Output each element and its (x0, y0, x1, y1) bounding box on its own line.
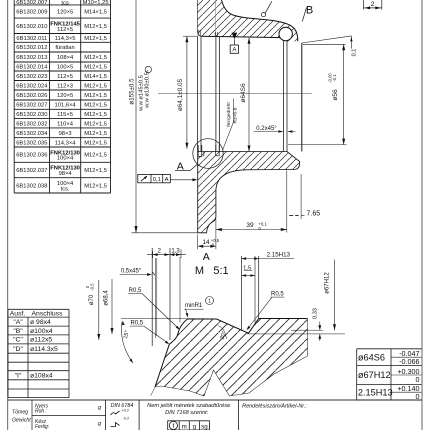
dim ø67H12 (334, 260, 336, 331)
svg-text:Fertig:: Fertig: (35, 424, 50, 430)
svg-text:120×5: 120×5 (57, 10, 73, 16)
dim ø155 line (135, 0, 137, 233)
svg-text:M12×1,5: M12×1,5 (84, 24, 107, 30)
svg-text:A: A (177, 160, 184, 172)
svg-text:-0.066: -0.066 (399, 357, 419, 366)
detail circle A (193, 139, 223, 169)
svg-text:6B1302.007: 6B1302.007 (16, 0, 47, 6)
svg-text:112×5: 112×5 (57, 74, 73, 80)
svg-text:0,33: 0,33 (313, 308, 319, 319)
svg-text:Roh :: Roh : (35, 409, 48, 415)
svg-text:-0,1: -0,1 (332, 74, 337, 82)
svg-text:M12×1,5: M12×1,5 (84, 131, 107, 137)
svg-text:Anschluss: Anschluss (32, 311, 64, 318)
svg-text:ø70: ø70 (89, 294, 95, 305)
tube end seats at body (198, 145, 204, 156)
svg-text:6B1302.023: 6B1302.023 (16, 74, 47, 80)
svg-text:M12×1,5: M12×1,5 (84, 153, 107, 159)
tolerance table (357, 349, 422, 401)
svg-text:ø68,4: ø68,4 (103, 290, 109, 306)
svg-text:tcs: tcs (61, 0, 69, 6)
svg-text:f: f (173, 423, 175, 430)
svg-text:6B1302.013: 6B1302.013 (16, 55, 47, 61)
svg-text:ø67H12: ø67H12 (358, 370, 391, 380)
svg-text:ø67H12: ø67H12 (324, 272, 330, 294)
svg-text:Gewicht: Gewicht (12, 418, 31, 424)
svg-text:6B1302.024: 6B1302.024 (16, 83, 48, 89)
detail part edges (155, 319, 308, 388)
extension pair (154, 258, 156, 338)
svg-text:6B1302.037: 6B1302.037 (16, 168, 47, 174)
svg-text:-0,5: -0,5 (89, 283, 94, 291)
outer right wall (301, 43, 303, 152)
svg-text:tcs.: tcs. (61, 186, 70, 192)
svg-text:1,3: 1,3 (171, 249, 180, 255)
svg-text:112×5: 112×5 (57, 27, 73, 33)
connection tube wall (left pair) (196, 36, 198, 151)
svg-text:6B1302.030: 6B1302.030 (16, 112, 47, 118)
dim ø70 detail (98, 280, 100, 340)
0,1 step leader (302, 36, 352, 43)
svg-text:M12×1,5: M12×1,5 (84, 183, 107, 189)
dim 2 (top right) (364, 7, 382, 9)
svg-text:0,5x45°: 0,5x45° (121, 268, 142, 274)
seat grooves (white) (198, 152, 202, 156)
svg-text:6B1302.035: 6B1302.035 (16, 140, 47, 146)
edge symbols (111, 411, 120, 415)
horizontal leg of 15deg dim (121, 318, 187, 320)
svg-text:115×5: 115×5 (57, 112, 73, 118)
svg-text:ø 98x4: ø 98x4 (30, 319, 51, 326)
svg-text:M12×1,5: M12×1,5 (84, 65, 107, 71)
slope extension for angle dim (151, 387, 155, 396)
datum A flag (232, 33, 238, 40)
right tube wall below bead (282, 41, 284, 152)
svg-text:B: B (306, 5, 313, 17)
dim ø64,1 (186, 36, 188, 149)
svg-text:39: 39 (246, 222, 254, 229)
svg-text:6B1302.012: 6B1302.012 (16, 45, 47, 51)
svg-text:Rendelésiszám/Artikel-Nr.:: Rendelésiszám/Artikel-Nr.: (242, 404, 307, 410)
svg-text:M: M (195, 265, 204, 277)
svg-text:114,3×4: 114,3×4 (55, 140, 76, 146)
surface symbol leader (261, 13, 265, 17)
svg-text:110×4: 110×4 (57, 121, 74, 127)
svg-text:M10×1,25: M10×1,25 (83, 0, 109, 6)
svg-text:A: A (203, 251, 210, 263)
svg-text:M12×1,5: M12×1,5 (84, 36, 107, 42)
svg-text:M12×1,5: M12×1,5 (84, 121, 107, 127)
detail break lines (155, 319, 308, 397)
svg-text:w.w ø130±0.5: w.w ø130±0.5 (145, 72, 151, 109)
svg-text:0,1: 0,1 (153, 177, 161, 183)
svg-text:101,6×4: 101,6×4 (55, 103, 77, 109)
svg-text:6B1302.027: 6B1302.027 (16, 103, 47, 109)
svg-text:6B1302.034: 6B1302.034 (16, 131, 48, 137)
svg-text:0.2x45°: 0.2x45° (256, 126, 277, 132)
svg-text:Tömeg: Tömeg (12, 410, 28, 416)
svg-text:A: A (232, 48, 236, 54)
svg-text:0: 0 (416, 392, 420, 401)
svg-text:A: A (165, 177, 169, 183)
svg-text:R0,5: R0,5 (271, 292, 284, 298)
body section (198, 152, 300, 233)
dim 15deg (122, 321, 125, 326)
sheet frame left border (7, 0, 9, 430)
detail tube wall right (slot) (241, 256, 243, 331)
svg-text:"I": "I" (15, 373, 22, 380)
svg-text:112×3: 112×3 (57, 83, 73, 89)
dim ø64S6 (248, 38, 250, 152)
centerline (158, 92, 312, 94)
svg-text:120×5: 120×5 (57, 93, 73, 99)
svg-text:6B1302.014: 6B1302.014 (16, 65, 48, 71)
svg-text:ø155±0.5: ø155±0.5 (128, 78, 135, 105)
svg-text:98×4: 98×4 (59, 171, 73, 177)
bead curl inner circle (279, 27, 292, 40)
svg-text:"D": "D" (13, 346, 23, 353)
sheet frame right border (421, 0, 423, 430)
svg-text:2: 2 (371, 1, 375, 8)
svg-text:DIN 7168 szerint:: DIN 7168 szerint: (165, 410, 209, 416)
svg-text:ø64S6: ø64S6 (240, 83, 247, 103)
svg-text:98×3: 98×3 (59, 131, 72, 137)
extension line left of flange (183, 35, 197, 37)
dim ø56 (303, 43, 346, 45)
dim 0,33 (291, 329, 323, 331)
svg-text:ø114.3x5: ø114.3x5 (30, 346, 58, 353)
svg-text:füratlan: füratlan (55, 45, 74, 51)
svg-text:M12×1,5: M12×1,5 (84, 93, 107, 99)
svg-text:-0,3: -0,3 (123, 417, 129, 421)
detail tube wall left (151, 248, 153, 346)
svg-text:ø56: ø56 (332, 89, 339, 101)
dim 2 / 1,3 detail (147, 254, 186, 256)
svg-text:5:1: 5:1 (213, 265, 228, 277)
flange with curled bead (section) (197, 0, 297, 42)
svg-text:M12×1,5: M12×1,5 (84, 103, 107, 109)
label B (302, 8, 306, 22)
svg-text:R0,5: R0,5 (129, 288, 142, 294)
title block (12, 400, 307, 430)
dim ø68,4 detail (111, 279, 113, 334)
svg-text:2.15H13: 2.15H13 (358, 387, 393, 397)
svg-text:ø64S6: ø64S6 (358, 352, 385, 362)
svg-text:1: 1 (208, 299, 211, 305)
svg-text:6B1302.026: 6B1302.026 (16, 93, 47, 99)
svg-text:7.65: 7.65 (307, 211, 321, 218)
svg-text:ø112x5: ø112x5 (30, 337, 52, 344)
svg-text:Nem jelölt méretek szabadtűrés: Nem jelölt méretek szabadtűrése (147, 403, 230, 409)
svg-text:114,3×5: 114,3×5 (55, 36, 76, 42)
svg-text:"B": "B" (13, 328, 23, 335)
svg-text:6B1302.010: 6B1302.010 (16, 24, 47, 30)
svg-text:m: m (182, 423, 187, 430)
svg-text:0: 0 (416, 375, 420, 384)
svg-text:108×4: 108×4 (57, 55, 74, 61)
dim 14 (198, 245, 216, 247)
svg-text:+0,3: +0,3 (122, 409, 129, 413)
svg-text:2.15H13: 2.15H13 (267, 251, 291, 258)
svg-text:Ausf.: Ausf. (10, 311, 26, 318)
svg-text:6B1302.038: 6B1302.038 (16, 183, 47, 189)
svg-text:R0,5: R0,5 (130, 321, 143, 327)
runout tolerance frame (138, 174, 171, 182)
svg-text:100×5: 100×5 (57, 65, 73, 71)
detail hatched section (155, 319, 308, 397)
dim 7.65 (300, 174, 302, 219)
svg-text:6B1302.009: 6B1302.009 (16, 10, 47, 16)
Ausf. Anschluss table (8, 309, 69, 397)
svg-text:14: 14 (202, 239, 210, 246)
tolerance class boxes (168, 421, 210, 430)
tube end tabs at flange (198, 30, 200, 36)
svg-text:M14×1,5: M14×1,5 (84, 10, 107, 16)
svg-text:M12×1,5: M12×1,5 (84, 83, 107, 89)
dim 39 (216, 229, 287, 231)
svg-text:6B1302.036: 6B1302.036 (16, 153, 47, 159)
detail view A (5:1) (85, 248, 345, 396)
svg-text:M12×1,5: M12×1,5 (84, 112, 107, 118)
parts variant table (14, 0, 110, 193)
svg-text:6B1302.011: 6B1302.011 (16, 36, 47, 42)
svg-text:ø108x4: ø108x4 (30, 373, 53, 380)
svg-text:6B1302.032: 6B1302.032 (16, 121, 47, 127)
svg-text:minR1: minR1 (185, 303, 203, 309)
connection tube wall (second pair) (215, 36, 217, 151)
title block top border (8, 399, 422, 401)
svg-text:ø100x4: ø100x4 (30, 328, 53, 335)
foot bottom extension line (132, 232, 198, 234)
svg-text:ø64,1±0.05: ø64,1±0.05 (177, 78, 184, 111)
tube wall centerline through flange (215, 0, 217, 36)
svg-text:"C": "C" (13, 337, 23, 344)
svg-text:M12×1,5: M12×1,5 (84, 168, 107, 174)
svg-text:M12×1,5: M12×1,5 (84, 55, 107, 61)
main section view (128, 0, 381, 277)
svg-text:"A": "A" (13, 319, 23, 326)
svg-text:sg: sg (201, 423, 208, 430)
svg-text:100×4: 100×4 (57, 156, 74, 162)
svg-text:A: A (144, 70, 149, 73)
svg-text:g: g (193, 423, 197, 430)
svg-text:feingedreht: feingedreht (226, 102, 232, 127)
svg-text:M14×1,5: M14×1,5 (84, 74, 107, 80)
svg-text:M12×1,5: M12×1,5 (84, 140, 107, 146)
svg-text:0,1: 0,1 (352, 49, 358, 57)
